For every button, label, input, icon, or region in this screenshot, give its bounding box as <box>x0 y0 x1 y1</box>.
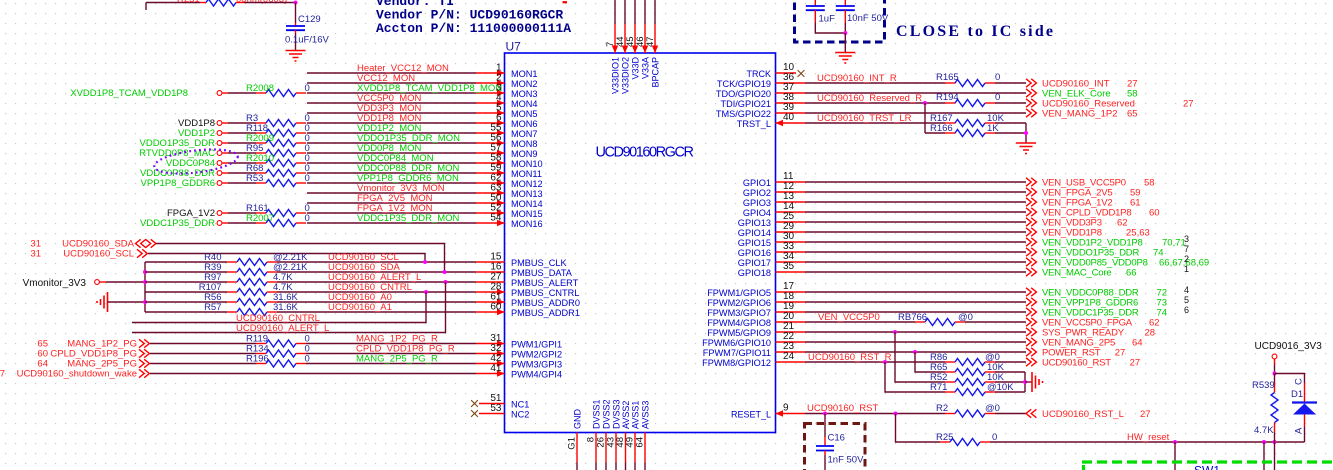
svg-text:GPIO13: GPIO13 <box>738 218 771 228</box>
wire net Vmonitor_3V3_MON to pin 63 MON13 <box>307 192 476 194</box>
junction FPWM8 branch <box>883 360 887 364</box>
resistor R39 @2.21K <box>145 271 227 273</box>
pin 7 V33DIO1 (top) <box>614 0 616 24</box>
svg-text:R165: R165 <box>936 72 959 83</box>
junction SDA join <box>443 270 447 274</box>
junction Reserved_R branch <box>923 101 927 105</box>
svg-text:MON9: MON9 <box>511 149 538 159</box>
wire pullup rail <box>144 262 146 312</box>
pin 39 TMS/GPIO22 <box>776 112 806 114</box>
junction HW_reset taps <box>1173 440 1177 444</box>
pin 37 TDO/GPIO20 <box>776 92 806 94</box>
wire net VDDC0P88_DDR_MON to pin 59 MON11 <box>307 172 476 174</box>
svg-text:MON16: MON16 <box>511 219 543 229</box>
wire net UCD90160_Reserved_R <box>805 102 945 104</box>
wire net UCD90160_ALERT_L to pin 27 PMBUS_ALERT <box>277 281 476 283</box>
wire FPWM7 to R65 <box>915 352 945 372</box>
pin 47 BPCAP (top) <box>654 0 656 24</box>
svg-text:PMBUS_ADDR1: PMBUS_ADDR1 <box>511 308 580 318</box>
pin 21 FPWM5/GPIO9 to off-page SYS_PWR_READY <box>776 331 806 333</box>
wire to off-page UCD90160_INT <box>995 82 1026 84</box>
svg-text:R57: R57 <box>204 302 221 313</box>
junction R25 branch <box>894 412 898 416</box>
svg-text:0: 0 <box>995 72 1000 83</box>
junction C16 tap <box>823 412 827 416</box>
resistor R25 0 <box>940 441 950 443</box>
svg-text:AVSS1: AVSS1 <box>631 401 641 429</box>
svg-text:R25: R25 <box>936 432 953 443</box>
svg-text:5: 5 <box>1184 295 1189 305</box>
resistor RB766 @0 <box>915 321 925 323</box>
svg-text:PMBUS_ALERT: PMBUS_ALERT <box>511 278 579 288</box>
svg-text:3: 3 <box>1184 234 1189 244</box>
svg-text:MON15: MON15 <box>511 209 543 219</box>
svg-text:6: 6 <box>1184 305 1189 315</box>
svg-text:XVDD1P8_TCAM_VDD1P8: XVDD1P8_TCAM_VDD1P8 <box>70 88 188 99</box>
junction R539/D1 split <box>1273 372 1277 376</box>
resistor R161 0 <box>256 212 266 214</box>
pin 64 AVSS3 (bottom) <box>644 433 646 463</box>
svg-text:70,71: 70,71 <box>1162 238 1186 249</box>
svg-text:40: 40 <box>783 112 795 123</box>
svg-text:AVSS2: AVSS2 <box>621 401 631 429</box>
wire top-left net stub <box>146 2 200 4</box>
pin 12 GPIO2 to off-page VEN_FPGA_2V5 <box>776 191 806 193</box>
svg-text:65: 65 <box>1127 109 1138 120</box>
ground below C129 <box>286 51 306 62</box>
svg-text:FPWM4/GPIO8: FPWM4/GPIO8 <box>707 318 771 328</box>
wire net VDD1P2_MON to pin 55 MON7 <box>307 132 476 134</box>
pin 23 FPWM7/GPIO11 to off-page POWER_RST <box>776 351 806 353</box>
pin 38 TDI/GPIO21 <box>776 102 806 104</box>
svg-text:PWM3/GPI3: PWM3/GPI3 <box>511 359 562 369</box>
svg-text:MON3: MON3 <box>511 89 538 99</box>
svg-text:1uF: 1uF <box>819 14 836 25</box>
svg-text:UCD90160_ALERT_L: UCD90160_ALERT_L <box>236 323 329 334</box>
wire FPWM8 to R71 <box>885 362 945 392</box>
svg-text:SW1: SW1 <box>1194 464 1220 470</box>
svg-text:PMBUS_ADDR0: PMBUS_ADDR0 <box>511 298 580 308</box>
svg-text:GPIO17: GPIO17 <box>738 258 771 268</box>
resistor R134 0 <box>256 353 266 355</box>
svg-text:R53: R53 <box>246 173 263 184</box>
svg-text:GPIO1: GPIO1 <box>743 178 771 188</box>
pin 14 GPIO4 to off-page VEN_CPLD_VDD1P8 <box>776 211 806 213</box>
svg-text:GPIO4: GPIO4 <box>743 208 771 218</box>
wire to ground <box>844 33 846 53</box>
wire net UCD90160_CNTRL to pin 28 PMBUS_CNTRL <box>277 291 476 293</box>
svg-text:MON7: MON7 <box>511 129 538 139</box>
capacitor C129 <box>295 3 297 24</box>
resistor R68 0 <box>256 172 266 174</box>
svg-text:UCD90160_Reserved_R: UCD90160_Reserved_R <box>817 93 922 104</box>
resistor R107 4.7K <box>145 291 227 293</box>
svg-text:VDDC1P35_DDR: VDDC1P35_DDR <box>140 218 215 229</box>
svg-text:PMBUS_CLK: PMBUS_CLK <box>511 258 568 268</box>
svg-text:MON4: MON4 <box>511 99 538 109</box>
wire pulldown commons to ground <box>995 371 1025 373</box>
svg-text:FPWM1/GPIO5: FPWM1/GPIO5 <box>707 288 771 298</box>
svg-text:@0: @0 <box>985 403 1000 414</box>
wire net VEN_ELK_Core <box>805 92 1026 94</box>
svg-text:27: 27 <box>1130 358 1141 369</box>
junction at R166 output <box>1024 131 1028 135</box>
pin 11 GPIO1 to off-page VEN_USB_VCC5P0 <box>776 181 806 183</box>
resistor R118 0 <box>256 132 266 134</box>
svg-text:66: 66 <box>1126 268 1137 279</box>
svg-text:AVSS3: AVSS3 <box>641 401 651 429</box>
svg-text:58: 58 <box>1144 178 1155 189</box>
svg-text:MON13: MON13 <box>511 189 543 199</box>
svg-text:FPWM8/GPIO12: FPWM8/GPIO12 <box>702 358 771 368</box>
wire UCD90160_SDA <box>156 244 445 273</box>
junction ALERT join <box>444 280 448 284</box>
pin 44 V33DIO2 (top) <box>624 0 626 24</box>
pin 17 FPWM1/GPIO5 to off-page VEN_VDDC0P88_DDR <box>776 291 806 293</box>
svg-text:TMS/GPIO22: TMS/GPIO22 <box>716 109 771 119</box>
svg-text:1nF 50V: 1nF 50V <box>828 455 865 466</box>
svg-text:PWM1/GPI1: PWM1/GPI1 <box>511 339 562 349</box>
resistor R196 0 <box>256 363 266 365</box>
pin 24 FPWM8/GPIO12 to off-page UCD90160_RST <box>776 361 806 363</box>
snubber dashed box <box>805 424 866 470</box>
svg-text:PMBUS_DATA: PMBUS_DATA <box>511 268 573 278</box>
resistor R56 31.6K <box>145 301 227 303</box>
wire net UCD90160_shutdown_wake to pin 41 PWM4/GPI4 <box>150 373 476 375</box>
svg-text:V33DIO2: V33DIO2 <box>621 57 631 94</box>
svg-text:60: 60 <box>1149 208 1160 219</box>
resistor R71 @10K <box>945 391 955 393</box>
svg-text:C129: C129 <box>298 14 321 25</box>
wire net VDD1P8_MON to pin 6 MON6 <box>307 122 476 124</box>
svg-text:TRST_L: TRST_L <box>737 119 771 129</box>
pin 36 TCK/GPIO19 <box>776 82 806 84</box>
resistor R251 (cut at top edge) <box>200 2 206 4</box>
svg-text:DVSS1: DVSS1 <box>592 399 602 429</box>
capacitor 10nF 50V <box>844 0 846 6</box>
svg-text:BPCAP: BPCAP <box>651 57 661 88</box>
annotation ellipse (purple dotted) <box>153 145 239 177</box>
wire net MANG_2P5_PG_R to pin 42 PWM3/GPI3 <box>306 363 476 365</box>
resistor R86 @0 <box>945 361 955 363</box>
svg-text:R2007: R2007 <box>246 213 274 224</box>
pin 22 FPWM6/GPIO10 to off-page VEN_MANG_2P5 <box>776 341 806 343</box>
pin 29 GPIO14 to off-page VEN_VDD1P8 <box>776 231 806 233</box>
wire R167/R166 commons to ground <box>995 122 1026 124</box>
svg-text:UCD90160_RST_R: UCD90160_RST_R <box>808 352 892 363</box>
red tick artifact at top edge <box>563 1 568 3</box>
svg-text:VEN_MANG_1P2: VEN_MANG_1P2 <box>1042 109 1118 120</box>
svg-text:HW_reset: HW_reset <box>1127 432 1170 443</box>
resistor R2009 0 <box>256 142 266 144</box>
svg-text:UCD90160_shutdown_wake: UCD90160_shutdown_wake <box>17 369 137 380</box>
svg-text:MANG_2P5_PG_R: MANG_2P5_PG_R <box>356 354 438 365</box>
wire net MANG_1P2_PG_R to pin 31 PWM1/GPI1 <box>306 343 476 345</box>
svg-text:VDDC1P35_DDR_MON: VDDC1P35_DDR_MON <box>357 213 460 224</box>
svg-text:Accton P/N: 111000000111A: Accton P/N: 111000000111A <box>376 21 571 36</box>
svg-text:35: 35 <box>783 261 795 272</box>
svg-text:R2: R2 <box>936 403 948 414</box>
wire to D1 cathode <box>1275 374 1305 384</box>
pin 10 TRCK no-connect <box>776 72 797 74</box>
svg-text:GPIO16: GPIO16 <box>738 248 771 258</box>
pin 34 GPIO17 to off-page VEN_VDD0P85_VDD0P8 <box>776 261 806 263</box>
pin 35 GPIO18 to off-page VEN_MAC_Core <box>776 271 806 273</box>
svg-text:64: 64 <box>1132 338 1143 349</box>
ground (rotated) pulldown <box>1032 372 1043 392</box>
pin 46 V33A (top) <box>644 0 646 24</box>
wire net UCD90160_INT_R <box>805 82 945 84</box>
wire net UCD90160_A1 to pin 60 PMBUS_ADDR1 <box>277 311 476 313</box>
junction at C129 tap <box>294 1 298 5</box>
diode D1 <box>1304 383 1306 403</box>
wire to C129 tap <box>244 2 296 4</box>
switch region dashed outline (green) <box>1082 460 1333 463</box>
wire UCD90160_SCL <box>148 254 425 263</box>
pin G1 GND (bottom) <box>576 433 578 463</box>
junction CNTRL join <box>424 290 428 294</box>
svg-text:G1: G1 <box>567 437 578 450</box>
svg-text:DVSS3: DVSS3 <box>612 399 622 429</box>
capacitor 1uF <box>814 0 816 6</box>
svg-text:GPIO15: GPIO15 <box>738 238 771 248</box>
svg-text:1: 1 <box>1184 264 1189 274</box>
wire net VDDC0P84_MON to pin 58 MON10 <box>307 162 476 164</box>
svg-text:UCD90160_INT_R: UCD90160_INT_R <box>817 73 897 84</box>
svg-text:PMBUS_CNTRL: PMBUS_CNTRL <box>511 288 579 298</box>
svg-text:R71: R71 <box>930 382 947 393</box>
pin 49 AVSS1 (bottom) <box>634 433 636 463</box>
svg-text:R539: R539 <box>1252 380 1275 391</box>
wire UCD90160_CNTRL branch <box>132 292 426 323</box>
resistor R52 10K <box>945 381 955 383</box>
svg-text:28: 28 <box>1145 328 1156 339</box>
svg-text:24: 24 <box>783 351 795 362</box>
svg-text:TRCK: TRCK <box>747 69 772 79</box>
svg-text:47: 47 <box>645 36 656 47</box>
resistor R95 0 <box>256 152 266 154</box>
svg-text:PWM2/GPI2: PWM2/GPI2 <box>511 349 562 359</box>
wire FPWM5 to R52 <box>895 332 945 382</box>
resistor R2008 0 <box>256 92 266 94</box>
svg-text:R196: R196 <box>246 354 269 365</box>
wire net VDDC1P35_DDR_MON to pin 54 MON16 <box>307 222 476 224</box>
svg-text:FPWM5/GPIO9: FPWM5/GPIO9 <box>707 328 771 338</box>
svg-text:FPWM7/GPIO11: FPWM7/GPIO11 <box>703 348 771 358</box>
svg-text:UCD90160_RST: UCD90160_RST <box>807 403 878 414</box>
svg-text:GPIO2: GPIO2 <box>743 188 771 198</box>
svg-text:41: 41 <box>490 363 502 374</box>
svg-text:27: 27 <box>1115 348 1126 359</box>
decoupling-caps dashed box <box>795 0 885 42</box>
svg-text:FPWM6/GPIO10: FPWM6/GPIO10 <box>702 338 771 348</box>
svg-text:D1: D1 <box>1291 389 1303 400</box>
svg-text:NC2: NC2 <box>511 409 529 419</box>
svg-text:0.1uF/16V: 0.1uF/16V <box>285 35 329 46</box>
svg-text:GPIO3: GPIO3 <box>743 198 771 208</box>
svg-text:R194: R194 <box>936 92 959 103</box>
resistor R97 4.7K <box>145 281 227 283</box>
svg-text:R166: R166 <box>930 123 953 134</box>
svg-text:GPIO18: GPIO18 <box>738 268 771 278</box>
wire net HW_reset <box>990 441 1305 443</box>
svg-text:UCD90160RGCR: UCD90160RGCR <box>596 145 694 161</box>
svg-text:GPIO14: GPIO14 <box>738 228 771 238</box>
svg-text:V33D: V33D <box>631 57 641 80</box>
svg-text:53: 53 <box>490 403 502 414</box>
svg-text:C16: C16 <box>828 433 845 444</box>
pin 20 FPWM4/GPIO8 to off-page VEN_VCC5P0_FPGA <box>776 321 806 323</box>
svg-text:R2008: R2008 <box>246 83 274 94</box>
svg-text:9: 9 <box>783 403 789 414</box>
pin 25 GPIO13 to off-page VEN_VDD3P3 <box>776 221 806 223</box>
pin 30 GPIO15 to off-page VEN_VDD1P2_VDD1P8 <box>776 241 806 243</box>
svg-text:60: 60 <box>490 302 502 313</box>
resistor R65 10K <box>945 371 955 373</box>
svg-text:UCD90160_SCL: UCD90160_SCL <box>63 249 134 260</box>
svg-text:TDO/GPIO20: TDO/GPIO20 <box>716 89 771 99</box>
junction pulldown common <box>1023 380 1027 384</box>
svg-text:27: 27 <box>1140 409 1151 420</box>
resistor R167 10K <box>945 122 955 124</box>
wire to off-page UCD90160_RST_L <box>995 413 1026 415</box>
pin 53 NC2 no-connect <box>471 410 478 417</box>
svg-text:2: 2 <box>1184 254 1189 264</box>
svg-text:27: 27 <box>1183 99 1194 110</box>
svg-text:4: 4 <box>1184 285 1189 295</box>
ground below R166/R167 <box>1016 143 1036 154</box>
pin 40 TRST_L <box>776 122 806 124</box>
wire net VDDO1P35_DDR_MON to pin 56 MON8 <box>307 142 476 144</box>
ground below decoupling caps <box>835 53 855 64</box>
svg-text:Vmonitor_3V3: Vmonitor_3V3 <box>23 278 87 289</box>
svg-text:MON8: MON8 <box>511 139 538 149</box>
ground (rotated) for addr resistors <box>97 292 108 312</box>
capacitor C16 1nF 50V <box>824 414 826 438</box>
wire net FPGA_1V2_MON to pin 52 MON15 <box>307 212 476 214</box>
resistor R119 0 <box>256 343 266 345</box>
svg-text:R251: R251 <box>177 0 200 5</box>
svg-text:C: C <box>1294 378 1305 385</box>
resistor R165 0 <box>945 82 955 84</box>
wire net VCC12_MON to pin 2 MON2 <box>307 82 476 84</box>
svg-text:10nF 50V: 10nF 50V <box>847 13 889 24</box>
svg-text:UCD90160_RST_L: UCD90160_RST_L <box>1042 409 1124 420</box>
svg-text:RESET_L: RESET_L <box>731 409 771 419</box>
resistor R194 0 <box>945 102 955 104</box>
svg-text:GND: GND <box>573 409 583 430</box>
svg-text:MON5: MON5 <box>511 109 538 119</box>
wire net VEN_MANG_1P2 <box>805 112 1026 114</box>
svg-text:VPP1P8_GDDR6: VPP1P8_GDDR6 <box>141 178 215 189</box>
junction FPWM7 branch <box>913 350 917 354</box>
svg-text:A: A <box>1294 427 1305 434</box>
svg-text:MON11: MON11 <box>511 169 542 179</box>
svg-text:TDI/GPIO21: TDI/GPIO21 <box>720 99 771 109</box>
svg-text:UCD90160_A1: UCD90160_A1 <box>328 302 392 313</box>
svg-text:UCD9016_3V3: UCD9016_3V3 <box>1255 341 1323 352</box>
svg-text:PWM4/GPI4: PWM4/GPI4 <box>511 369 562 379</box>
pin 26 DVSS2 (bottom) <box>605 433 607 463</box>
resistor R2007 0 <box>256 222 266 224</box>
resistor R3 0 <box>256 122 266 124</box>
pin 18 FPWM2/GPIO6 to off-page VEN_VPP1P8_GDDR6 <box>776 301 806 303</box>
wire net UCD90160_TRST_LR <box>805 122 945 124</box>
resistor R57 31.6K <box>145 311 227 313</box>
svg-text:7: 7 <box>1184 244 1189 254</box>
svg-text:CLOSE to IC side: CLOSE to IC side <box>896 23 1055 40</box>
junction caps common <box>843 31 847 35</box>
svg-text:0: 0 <box>995 92 1000 103</box>
wire net CPLD_VDD1P8_PG_R to pin 32 PWM2/GPI2 <box>306 353 476 355</box>
svg-text:7: 7 <box>0 369 5 380</box>
wire net Heater_VCC12_MON to pin 1 MON1 <box>307 72 476 74</box>
wire RST to R25 <box>896 414 941 443</box>
svg-text:NC1: NC1 <box>511 399 529 409</box>
svg-text:MON6: MON6 <box>511 119 538 129</box>
svg-text:VEN_MAC_Core: VEN_MAC_Core <box>1042 268 1111 279</box>
resistor R2 @0 <box>945 413 955 415</box>
pin 33 GPIO16 to off-page VEN_VDDO1P35_DDR <box>776 251 806 253</box>
svg-text:FPWM3/GPIO7: FPWM3/GPIO7 <box>707 308 771 318</box>
junction FPWM5 branch <box>893 330 897 334</box>
pin 51 NC1 no-connect <box>471 400 478 407</box>
pin 43 DVSS3 (bottom) <box>615 433 617 463</box>
junction SCL join <box>423 260 427 264</box>
svg-text:V33DIO1: V33DIO1 <box>611 57 621 94</box>
wire net UCD90160_SDA to pin 16 PMBUS_DATA <box>277 271 476 273</box>
wire to off-page UCD90160_Reserved <box>995 102 1026 104</box>
svg-text:61: 61 <box>1130 198 1141 209</box>
wire UCD90160_ALERT_L branch <box>132 282 446 333</box>
resistor R53 0 <box>256 182 266 184</box>
wire net VDD3P3_MON to pin 5 MON5 <box>307 112 476 114</box>
svg-text:U7: U7 <box>506 40 522 54</box>
op-amp-style IC body U7 UCD90160RGCR <box>505 53 776 433</box>
svg-text:MON10: MON10 <box>511 159 543 169</box>
svg-text:MON14: MON14 <box>511 199 543 209</box>
pin 45 V33D (top) <box>634 0 636 24</box>
svg-text:MON12: MON12 <box>511 179 543 189</box>
svg-text:54: 54 <box>490 213 502 224</box>
wire stubs down to switch SW1 (cut) <box>1174 442 1176 470</box>
pin 9 RESET_L net UCD90160_RST <box>776 413 806 415</box>
svg-text:V33A: V33A <box>641 57 651 79</box>
pin 8 DVSS1 (bottom) <box>595 433 597 463</box>
wire net UCD90160_SCL to pin 15 PMBUS_CLK <box>277 261 476 263</box>
svg-text:TCK/GPIO19: TCK/GPIO19 <box>717 79 771 89</box>
pin 48 AVSS2 (bottom) <box>625 433 627 463</box>
resistor R166 1K <box>945 132 955 134</box>
resistor R539 4.7K (vertical) <box>1274 374 1276 383</box>
svg-text:MON1: MON1 <box>511 69 538 79</box>
svg-text:VEN_VCC5P0: VEN_VCC5P0 <box>818 312 880 323</box>
svg-text:RB766: RB766 <box>898 312 927 323</box>
svg-text:DVSS2: DVSS2 <box>602 399 612 429</box>
pin 13 GPIO3 to off-page VEN_FPGA_1V2 <box>776 201 806 203</box>
wire net XVDD1P8_TCAM_VDD1P8_MON to pin 3 MON3 <box>307 92 476 94</box>
wire net VDD0P8_MON to pin 57 MON9 <box>307 152 476 154</box>
svg-text:4.7K: 4.7K <box>1254 425 1274 436</box>
wire net FPGA_2V5_MON to pin 50 MON14 <box>307 202 476 204</box>
svg-text:31: 31 <box>30 249 41 260</box>
pin 19 FPWM3/GPIO7 to off-page VEN_VDDC1P35_DDR <box>776 311 806 313</box>
svg-text:64: 64 <box>635 437 646 448</box>
svg-text:FPWM2/GPIO6: FPWM2/GPIO6 <box>707 298 771 308</box>
resistor R40 @2.21K <box>145 261 227 263</box>
resistor R2010 0 <box>256 162 266 164</box>
wire TDI branch down to R166 <box>924 103 926 133</box>
